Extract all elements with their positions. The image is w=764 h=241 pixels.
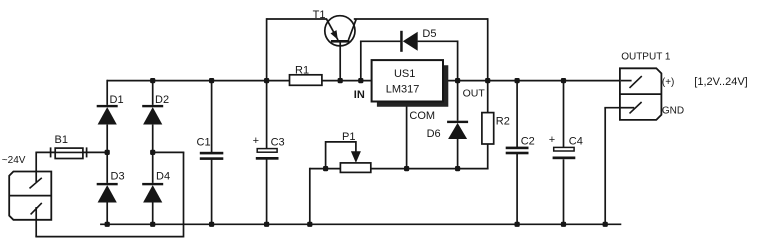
junction dot main rail at C3/top-rail bbox=[264, 78, 269, 83]
junction dot adjust rail COM bbox=[404, 166, 409, 171]
junction dot main rail at T1 base bbox=[338, 78, 343, 83]
wire C2 top lead bbox=[516, 81, 518, 147]
junction dot main rail at C4 bbox=[561, 78, 566, 83]
diode D1 bbox=[97, 105, 118, 125]
svg-text:IN: IN bbox=[354, 89, 365, 101]
wire fuse line (input connector to bridge) bbox=[36, 151, 107, 153]
wire C3 top lead bbox=[266, 81, 268, 149]
wire main rail right (US1 OUT pin to output connector) bbox=[443, 80, 632, 82]
wire D2 bottom lead bbox=[152, 125, 154, 153]
transistor T1 circle bbox=[325, 16, 355, 46]
wire D5 right horizontal bbox=[418, 40, 458, 42]
capacitor C3 polarized bbox=[256, 149, 279, 160]
diode D5 bbox=[400, 31, 418, 52]
svg-text:LM317: LM317 bbox=[386, 84, 420, 96]
junction dot fuse/D1/D3 bbox=[105, 150, 110, 155]
junction dot bottom rail at D4 bbox=[150, 222, 155, 227]
svg-text:OUTPUT 1: OUTPUT 1 bbox=[621, 51, 671, 62]
wire D5 left vertical drop bbox=[360, 41, 362, 80]
junction dot adjust rail P1 wiper bbox=[323, 166, 328, 171]
wire input connector top pin stub bbox=[35, 152, 37, 182]
svg-text:D4: D4 bbox=[156, 171, 170, 183]
diode D2 bbox=[142, 105, 163, 125]
resistor R2 bbox=[482, 113, 494, 144]
wire D6 top lead bbox=[457, 81, 459, 121]
wire GND column vertical bbox=[604, 108, 606, 225]
junction dot main rail at D5 left bbox=[358, 78, 363, 83]
svg-text:+: + bbox=[253, 135, 259, 147]
junction dot bottom rail at C2 bbox=[515, 222, 520, 227]
svg-text:D1: D1 bbox=[110, 94, 124, 106]
potentiometer P1 wiper wire bbox=[326, 142, 356, 169]
connector X1 pin 1 slash bbox=[30, 178, 42, 189]
connector X1 input ~24V body bbox=[9, 172, 51, 220]
wire AC return to D2/D4 junction bbox=[153, 151, 185, 153]
potentiometer P1 wiper arrow bbox=[351, 151, 361, 163]
svg-text:D5: D5 bbox=[422, 28, 436, 40]
wire top rail right segment (T1 collector to R2 column) bbox=[354, 18, 488, 20]
connector OUTPUT 1 pin GND wire stub bbox=[619, 107, 634, 109]
junction dot bottom rail at D3 bbox=[105, 222, 110, 227]
connector X1 pin 2 slash bbox=[31, 203, 42, 215]
connector X1 divider bbox=[9, 195, 51, 197]
wire D5 right vertical drop to OUT rail bbox=[457, 40, 459, 80]
fuse B1 left tick bbox=[50, 147, 52, 157]
capacitor C1 bbox=[200, 152, 224, 160]
svg-text:US1: US1 bbox=[394, 68, 415, 80]
junction dot main rail at D2 top bbox=[150, 78, 155, 83]
wire top rail left segment (T1 emitter to C3 column) bbox=[267, 18, 328, 20]
wire C1 bottom lead bbox=[211, 160, 213, 225]
junction dot bottom rail at C3 bbox=[264, 222, 269, 227]
junction dot adjust rail D6 bbox=[455, 166, 460, 171]
wire D3 top lead bbox=[106, 152, 108, 183]
wire C3 bottom lead bbox=[266, 159, 268, 224]
svg-text:D6: D6 bbox=[427, 128, 441, 140]
diode D3 bbox=[97, 183, 118, 203]
svg-text:C1: C1 bbox=[197, 136, 211, 148]
regulator US1 body bbox=[372, 60, 443, 101]
connector OUTPUT 1 pin (+) wire stub bbox=[621, 80, 632, 82]
resistor R1 bbox=[290, 75, 322, 86]
junction dot D2/D4/AC bbox=[150, 150, 155, 155]
capacitor C2 bbox=[506, 147, 529, 155]
wire C2 bottom lead bbox=[516, 154, 518, 224]
connector OUTPUT 1 pin (+) slash bbox=[630, 76, 642, 88]
svg-text:[1,2V..24V]: [1,2V..24V] bbox=[694, 76, 747, 88]
svg-text:OUT: OUT bbox=[463, 88, 486, 100]
diode D6 bbox=[447, 121, 468, 139]
junction dot bottom rail at P1 drop bbox=[307, 222, 312, 227]
capacitor C4 polarized bbox=[553, 147, 576, 159]
svg-text:C2: C2 bbox=[521, 135, 535, 147]
svg-text:~24V: ~24V bbox=[2, 155, 26, 166]
junction dot bottom rail at C4 bbox=[561, 222, 566, 227]
transistor T1 emitter line bbox=[327, 19, 338, 40]
wire main rail left (D1 top to US1 IN pin) bbox=[107, 80, 371, 82]
svg-text:R1: R1 bbox=[295, 64, 309, 76]
junction dot main rail at C2 bbox=[515, 78, 520, 83]
wire C1 top lead bbox=[211, 81, 213, 153]
wire bottom rail (ground return) bbox=[100, 223, 621, 225]
junction dot main rail at D5 right / D6 bbox=[455, 78, 460, 83]
wire input connector bottom pin stub bbox=[35, 207, 37, 237]
wire D1 bottom lead to fuse junction bbox=[106, 125, 108, 153]
regulator US1 shadow bbox=[377, 65, 448, 106]
connector OUTPUT 1 body bbox=[620, 68, 662, 120]
wire D4 top lead bbox=[152, 152, 154, 183]
svg-text:GND: GND bbox=[662, 106, 684, 117]
wire vertical C3 column (top rail down to main rail) bbox=[266, 18, 268, 80]
wire vertical R2 column (top rail down to main rail) bbox=[487, 18, 489, 80]
fuse B1 body bbox=[55, 148, 83, 158]
svg-text:C3: C3 bbox=[271, 136, 285, 148]
wire vertical D1 column top lead bbox=[106, 80, 108, 105]
connector OUTPUT 1 pin GND slash bbox=[630, 102, 642, 113]
wire C4 bottom lead bbox=[563, 159, 565, 224]
junction dot bottom rail at C1 bbox=[209, 222, 214, 227]
svg-text:+: + bbox=[549, 134, 555, 146]
svg-text:(+): (+) bbox=[662, 77, 675, 88]
wire D3 bottom lead to bottom rail bbox=[106, 200, 108, 224]
transistor T1 base bar bbox=[331, 40, 350, 43]
wire C4 top lead bbox=[563, 81, 565, 148]
fuse B1 element line bbox=[55, 151, 83, 153]
svg-text:T1: T1 bbox=[313, 9, 326, 21]
svg-text:COM: COM bbox=[409, 110, 435, 122]
wire GND to output connector pin bbox=[604, 107, 634, 109]
wire adjust rail (P1 left corner to R2 bottom) bbox=[310, 168, 489, 170]
wire R2 top lead bbox=[487, 81, 489, 113]
svg-text:P1: P1 bbox=[342, 131, 355, 143]
svg-text:B1: B1 bbox=[55, 134, 68, 146]
connector OUTPUT 1 divider bbox=[620, 93, 662, 95]
connector X1 pin 1 wire stub bbox=[35, 171, 37, 182]
wire D5 left horizontal bbox=[360, 40, 400, 42]
wire P1 left terminal drop to bottom rail bbox=[309, 168, 311, 225]
transistor T1 collector line bbox=[348, 19, 356, 40]
svg-text:C4: C4 bbox=[569, 135, 583, 147]
svg-text:R2: R2 bbox=[496, 116, 510, 128]
wire D4 bottom lead bbox=[152, 200, 154, 224]
wire AC return vertical segment bbox=[183, 152, 185, 237]
junction dot main rail at C1 bbox=[209, 78, 214, 83]
junction dot main rail at top-rail/R2 bbox=[485, 78, 490, 83]
diode D4 bbox=[142, 183, 163, 203]
svg-text:D2: D2 bbox=[155, 94, 169, 106]
wire COM pin lead bbox=[406, 102, 408, 169]
potentiometer P1 body bbox=[340, 163, 370, 173]
wire D2 top lead bbox=[152, 81, 154, 105]
wire R2 bottom lead bbox=[487, 144, 489, 170]
fuse B1 right tick bbox=[86, 147, 88, 157]
junction dot bottom rail at GND column bbox=[603, 222, 608, 227]
wire T1 base lead bbox=[339, 42, 341, 80]
svg-text:D3: D3 bbox=[111, 171, 125, 183]
transistor T1 emitter arrow bbox=[331, 30, 338, 39]
wire D6 bottom lead bbox=[457, 139, 459, 169]
wire AC return bottom segment bbox=[35, 236, 183, 238]
connector X1 pin 2 wire stub bbox=[35, 207, 37, 221]
